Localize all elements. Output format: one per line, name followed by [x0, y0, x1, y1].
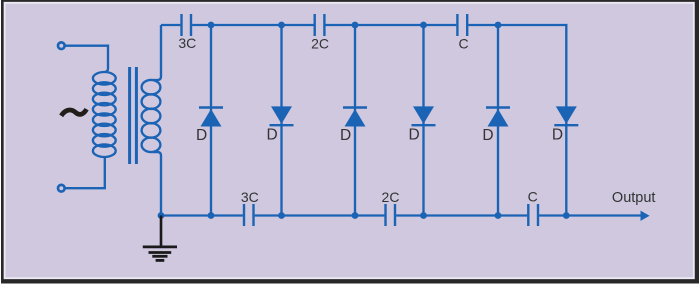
svg-text:C: C [528, 189, 538, 205]
svg-text:D: D [552, 127, 563, 144]
svg-text:D: D [340, 127, 351, 144]
svg-text:3C: 3C [241, 189, 259, 205]
svg-text:2C: 2C [311, 36, 329, 52]
svg-text:D: D [266, 127, 277, 144]
svg-text:3C: 3C [178, 35, 196, 51]
svg-text:C: C [459, 36, 469, 52]
svg-text:D: D [196, 127, 207, 144]
svg-text:Output: Output [612, 190, 656, 206]
svg-text:D: D [408, 127, 419, 144]
svg-text:D: D [482, 127, 493, 144]
svg-text:2C: 2C [382, 189, 400, 205]
